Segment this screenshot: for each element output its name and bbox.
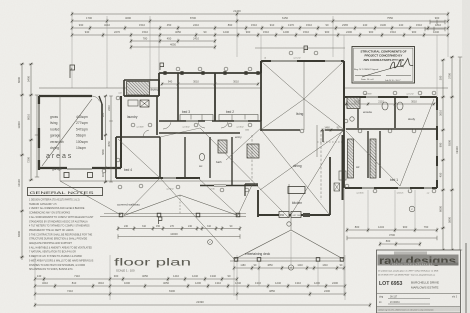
eave/verandah outline <box>39 87 261 89</box>
walkway posts <box>119 213 123 217</box>
garage verandah posts <box>64 173 69 178</box>
living roof diagonals <box>262 62 304 99</box>
general notes box <box>28 188 103 196</box>
extra verandah diagonals <box>124 178 160 215</box>
top dimension chains <box>72 12 448 16</box>
interior vertical dim chains right of garage <box>104 96 108 182</box>
entertaining deck <box>234 230 291 260</box>
title block table <box>377 293 460 295</box>
kitchen island bench <box>288 187 305 194</box>
linen cupboard grid (right of living) <box>347 98 360 109</box>
porch wall east of deck <box>342 135 344 200</box>
top risers to building <box>260 35 262 61</box>
right wing outer walls <box>344 96 437 98</box>
right dimension chains <box>441 60 445 250</box>
bed4 roof diagonal <box>118 139 160 178</box>
garage roof diagonal <box>42 99 92 166</box>
structural stamp box <box>352 47 415 84</box>
ensuite / study internal walls <box>357 97 359 128</box>
kitchen appliances <box>279 212 289 218</box>
logo banner <box>394 252 427 256</box>
deck risers <box>233 262 235 296</box>
top band wall (bed3/bed2) with piers <box>159 72 261 74</box>
left wing: garage block walls <box>39 95 92 97</box>
bed4 / wc / bath strip <box>115 137 117 178</box>
window gaps in walls <box>362 186 374 189</box>
laundry tub <box>140 100 149 107</box>
bed2/bed3 dividing wall <box>214 73 216 121</box>
small window tags along walls <box>131 123 135 127</box>
interior room dims under top wall <box>162 83 258 86</box>
door arcs corridor <box>163 122 171 129</box>
drying court <box>124 79 159 81</box>
bed1 roof diagonals <box>346 131 400 186</box>
misc long roof diagonals lower-middle <box>160 178 234 259</box>
section marker B flag <box>70 65 75 78</box>
bottom dimension chains <box>35 277 237 281</box>
dining roof diagonals <box>262 131 329 214</box>
ensuite fixtures <box>347 100 355 108</box>
walkway dims <box>118 226 240 230</box>
wardrobe hatched shelves <box>348 139 354 178</box>
clothesline hatched box <box>127 82 150 96</box>
right wing risers to dims <box>367 190 369 230</box>
bed 3 <box>177 73 179 121</box>
porch top dim <box>322 129 344 132</box>
extra deck risers <box>258 262 260 286</box>
section marker C top <box>160 63 164 70</box>
living room <box>261 60 344 62</box>
corridor walls <box>159 120 205 122</box>
laundry walls <box>120 96 122 168</box>
bed2 robe <box>219 115 258 121</box>
bed3 robe <box>180 115 213 121</box>
signature squiggle <box>390 58 413 69</box>
title block frame <box>377 250 461 313</box>
left dimension chains <box>20 64 24 260</box>
wir walls <box>367 131 369 178</box>
south-side verandah roof diagonals <box>60 181 121 215</box>
dashed eave line near porch <box>320 130 322 200</box>
